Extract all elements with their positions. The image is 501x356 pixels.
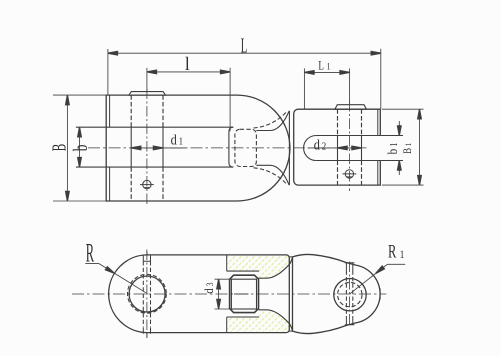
pin P1 cotter circle	[143, 180, 151, 188]
svg-text:L: L	[241, 33, 248, 57]
pin P1 cap	[129, 92, 166, 96]
left clevis slot bottom line (with b extension)	[76, 166, 233, 168]
dimension d1	[131, 147, 186, 149]
right clevis slot top line (with b1 extension)	[316, 135, 403, 137]
svg-text:1: 1	[179, 136, 184, 148]
dimension d2	[308, 147, 362, 149]
hidden square stem in slot	[235, 129, 257, 166]
right hole solid circle	[334, 279, 366, 311]
dimension B1	[419, 109, 421, 185]
svg-text:B: B	[402, 148, 414, 154]
dimension L1	[304, 71, 349, 73]
socket cavity top line	[227, 270, 259, 272]
dimension L	[108, 52, 381, 54]
neck curve lower (front view)	[259, 310, 293, 331]
right clevis right-edge chamfer line	[377, 109, 379, 185]
svg-text:1: 1	[327, 61, 331, 72]
svg-text:L: L	[318, 59, 324, 73]
pin P2 cap	[335, 105, 367, 110]
front view main centerline	[72, 293, 386, 295]
visible neck curve upper (top view)	[256, 111, 289, 131]
left hole solid circle	[129, 276, 165, 312]
left cotter pin front	[143, 255, 150, 261]
pin P2 cotter circle	[345, 170, 353, 178]
right clevis slot bottom line (with b1 extension)	[316, 160, 403, 162]
svg-text:R: R	[388, 242, 397, 262]
dimension b1	[398, 121, 400, 175]
svg-text:1: 1	[400, 249, 405, 261]
dimension B	[66, 95, 68, 201]
top view main centerline	[88, 147, 368, 149]
svg-text:1: 1	[403, 143, 413, 147]
left hole hidden circle	[127, 274, 166, 313]
neck curve upper (front view)	[259, 257, 293, 278]
head outline (front view)	[293, 254, 381, 333]
pin P2 centerline	[349, 101, 351, 191]
svg-text:b: b	[69, 145, 91, 152]
hatch region upper	[227, 255, 290, 278]
square head inner	[231, 279, 256, 309]
radius R1 leader	[350, 264, 406, 294]
left clevis slot closed end	[229, 127, 234, 167]
pin P1 right side	[162, 95, 164, 201]
pin P1 centerline	[146, 89, 148, 207]
pin P2 right side	[361, 109, 363, 185]
section boundary line	[226, 255, 228, 333]
radius R leader	[85, 264, 147, 294]
left clevis slot top line (with b extension)	[76, 126, 233, 128]
socket cavity bottom line	[227, 316, 259, 318]
svg-text:b: b	[385, 149, 400, 155]
svg-text:l: l	[185, 53, 190, 74]
right hole centerline vertical	[349, 262, 351, 327]
hidden neck curve lower (top view)	[254, 168, 287, 184]
svg-text:3: 3	[205, 282, 215, 286]
visible neck curve lower (top view)	[256, 165, 289, 185]
right clevis body outline	[294, 109, 381, 185]
collar edge at junction	[288, 111, 290, 185]
pin P1 left side	[130, 95, 132, 201]
dimension l	[147, 71, 230, 73]
right cotter pin front	[345, 263, 355, 271]
left clevis left-edge chamfer line	[109, 95, 111, 201]
right clevis slot stadium arc	[304, 136, 317, 161]
svg-text:2: 2	[322, 141, 327, 153]
square head centerline dash	[234, 293, 249, 295]
svg-text:d: d	[203, 288, 216, 293]
right hole hidden circle	[338, 282, 362, 306]
left clevis body outline	[106, 95, 290, 201]
svg-text:R: R	[86, 240, 95, 268]
head top tick	[289, 257, 292, 331]
pin P2 left side	[337, 109, 339, 185]
right centermark tick	[379, 288, 381, 299]
square head outer (chamfered)	[230, 275, 259, 312]
svg-text:B: B	[47, 144, 71, 151]
svg-text:d: d	[171, 131, 177, 147]
left part outline (front view)	[109, 255, 290, 333]
dimension d3	[215, 279, 232, 309]
hidden neck curve upper (top view)	[254, 112, 287, 128]
hatch region lower	[227, 310, 290, 333]
svg-text:1: 1	[388, 143, 399, 147]
left hole centerline vertical	[146, 250, 148, 339]
svg-text:d: d	[314, 137, 320, 153]
dimension b	[79, 127, 81, 167]
